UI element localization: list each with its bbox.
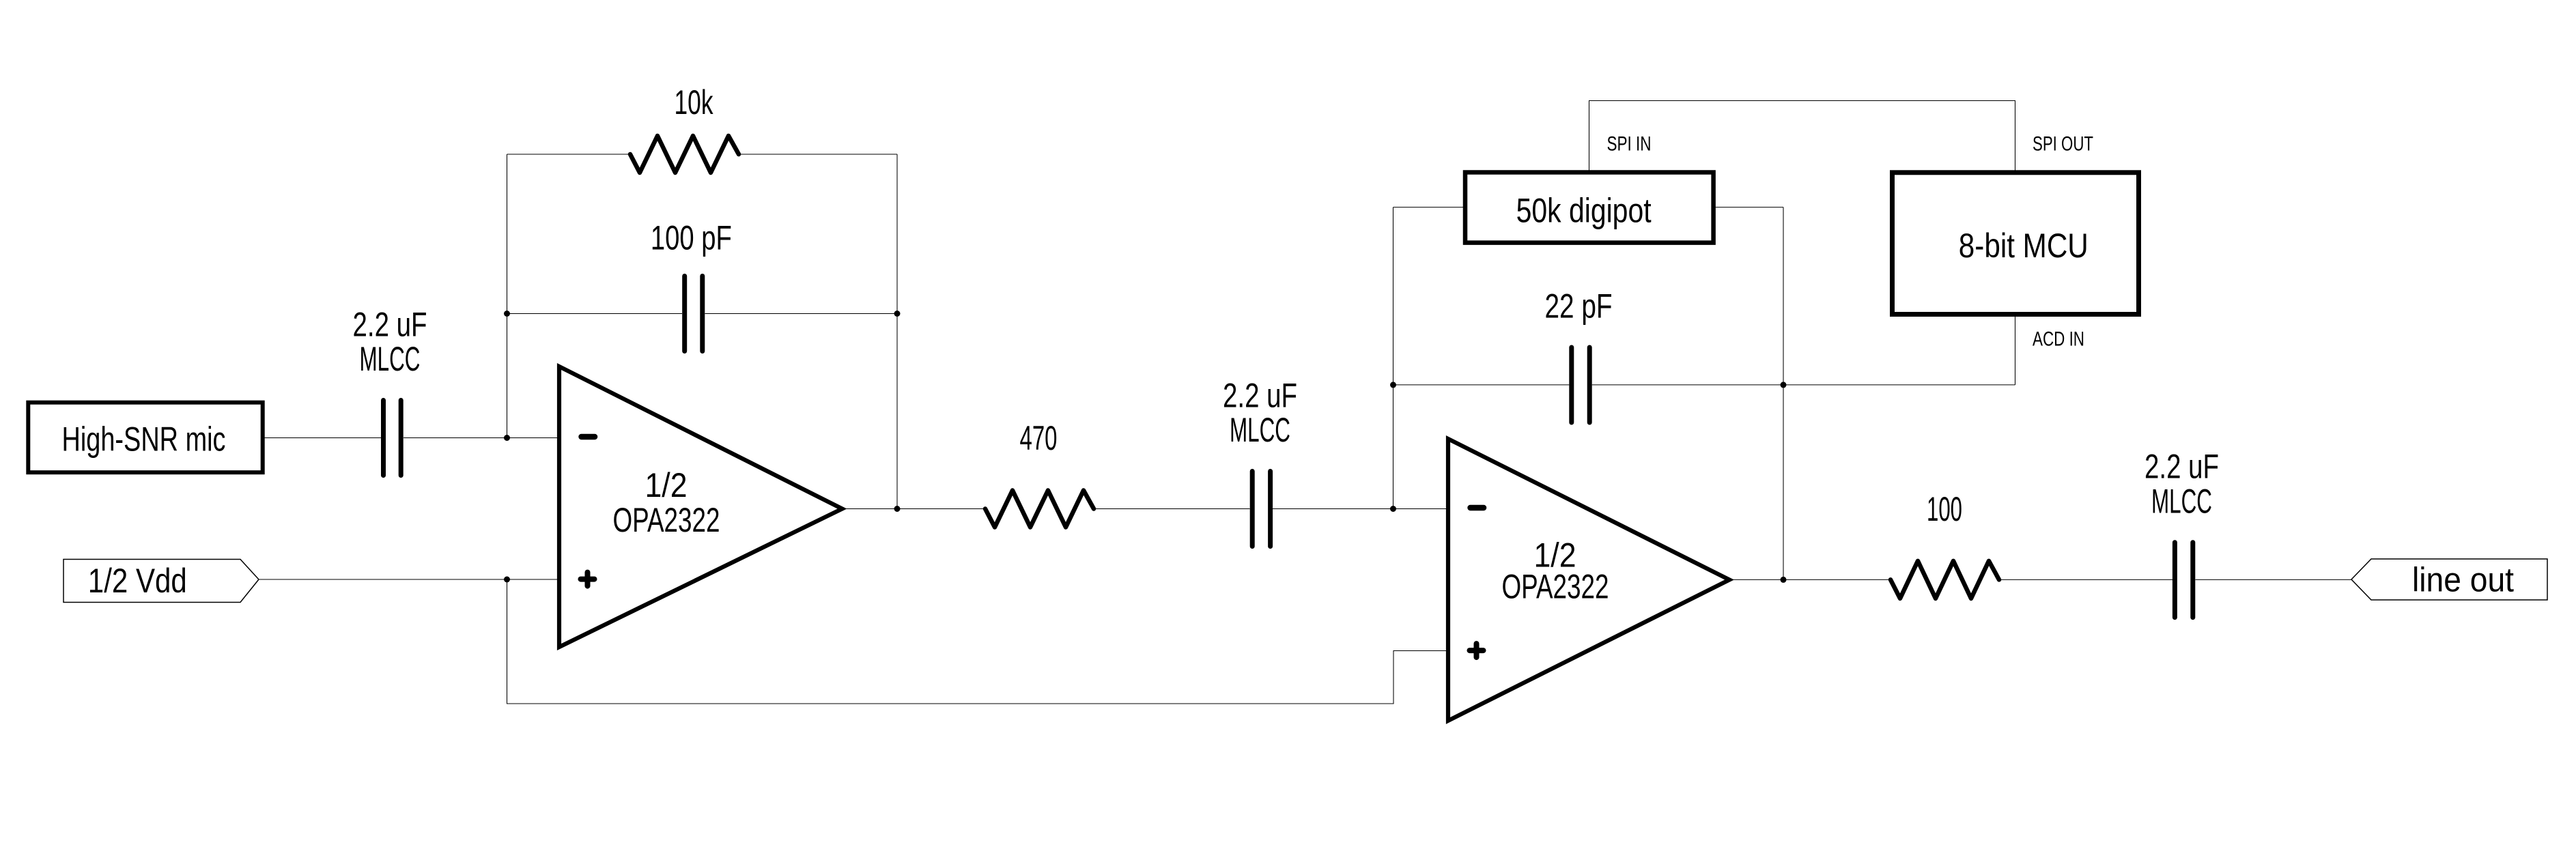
svg-text:1/2 Vdd: 1/2 Vdd — [88, 562, 187, 600]
wire 22 pF branch / ACD IN rail — [1393, 384, 2015, 386]
junction node U2 output — [1781, 577, 1787, 583]
wire vertical from digipot left terminal to U2 inverting node — [1393, 207, 1394, 509]
svg-text:SPI OUT: SPI OUT — [2033, 133, 2093, 156]
junction node U1 output — [894, 506, 901, 512]
svg-text:100 pF: 100 pF — [651, 219, 732, 257]
op-amp U1 OPA2322 — [559, 366, 843, 647]
svg-text:2.2 uF: 2.2 uF — [2145, 448, 2219, 486]
capacitor C3 100 pF — [685, 276, 703, 351]
svg-text:ACD IN: ACD IN — [2033, 328, 2084, 351]
svg-text:470: 470 — [1020, 419, 1058, 457]
wire feedback top rail through R1 — [507, 154, 898, 155]
output flag line out — [2351, 559, 2547, 600]
svg-text:10k: 10k — [675, 83, 714, 121]
resistor R1 10k — [630, 136, 739, 173]
junction node 1/2 Vdd split — [504, 577, 510, 583]
U2 non-inverting pin plus — [1470, 644, 1484, 657]
op-amp U2 OPA2322 — [1448, 439, 1729, 721]
capacitor C1 2.2 uF MLCC — [384, 401, 401, 476]
U2 inverting pin minus — [1471, 505, 1484, 510]
svg-text:MLCC: MLCC — [360, 340, 421, 378]
svg-text:100: 100 — [1927, 490, 1962, 528]
svg-text:2.2 uF: 2.2 uF — [1223, 377, 1297, 415]
junction node U1 inverting input — [504, 435, 510, 441]
wire U2 output rail through R3 and C5 to line out — [1729, 579, 2351, 580]
wire vertical digipot right to U2 output — [1783, 207, 1784, 580]
wire feedback left vertical (node A to top rail) — [507, 154, 508, 438]
wire SPI loop digipot to MCU — [1589, 101, 2015, 173]
wire digipot right stub — [1714, 207, 1783, 208]
capacitor C4 22 pF — [1572, 347, 1589, 422]
U1 non-inverting pin plus — [581, 573, 595, 586]
resistor R3 100 — [1891, 561, 1999, 599]
wire 1/2 Vdd extension to U2 non-inverting input — [507, 579, 1449, 704]
resistor R2 470 — [985, 491, 1094, 528]
svg-text:2.2 uF: 2.2 uF — [353, 306, 427, 344]
block High-SNR mic — [28, 403, 262, 473]
block 8-bit MCU — [1893, 173, 2139, 315]
svg-text:50k digipot: 50k digipot — [1516, 192, 1652, 230]
svg-text:22 pF: 22 pF — [1545, 287, 1613, 326]
svg-text:SPI IN: SPI IN — [1607, 133, 1652, 156]
svg-text:OPA2322: OPA2322 — [613, 501, 720, 539]
wire MCU ACD IN vertical — [2015, 315, 2016, 385]
svg-text:High-SNR mic: High-SNR mic — [62, 420, 226, 459]
wire 1/2 Vdd rail to op-amp U1 non-inverting input — [259, 579, 559, 580]
block 50k digipot — [1465, 173, 1714, 243]
capacitor C5 2.2 uF MLCC — [2175, 543, 2192, 618]
svg-text:MLCC: MLCC — [2151, 483, 2212, 521]
wire U1 output rail through R2 and C2 to U2 inverting input — [843, 508, 1449, 510]
svg-text:OPA2322: OPA2322 — [1502, 568, 1609, 606]
svg-text:line out: line out — [2412, 561, 2514, 599]
junction node 100pF left — [504, 311, 510, 317]
capacitor C2 2.2 uF MLCC — [1252, 472, 1270, 547]
wire 100 pF branch — [507, 313, 898, 315]
junction node 100pF right — [894, 311, 901, 317]
svg-text:MLCC: MLCC — [1230, 411, 1290, 449]
junction node 22pF right — [1781, 382, 1787, 388]
wire digipot left stub — [1393, 207, 1466, 208]
junction node 22pF left — [1390, 382, 1396, 388]
svg-text:8-bit MCU: 8-bit MCU — [1959, 227, 2089, 265]
U1 inverting pin minus — [582, 434, 595, 440]
junction node U2 inverting input — [1390, 506, 1396, 512]
power flag 1/2 Vdd — [63, 560, 259, 603]
svg-text:1/2: 1/2 — [645, 466, 688, 504]
wire feedback right vertical to U1 output — [896, 154, 898, 509]
wire mic output to op-amp U1 inverting input — [265, 437, 560, 439]
